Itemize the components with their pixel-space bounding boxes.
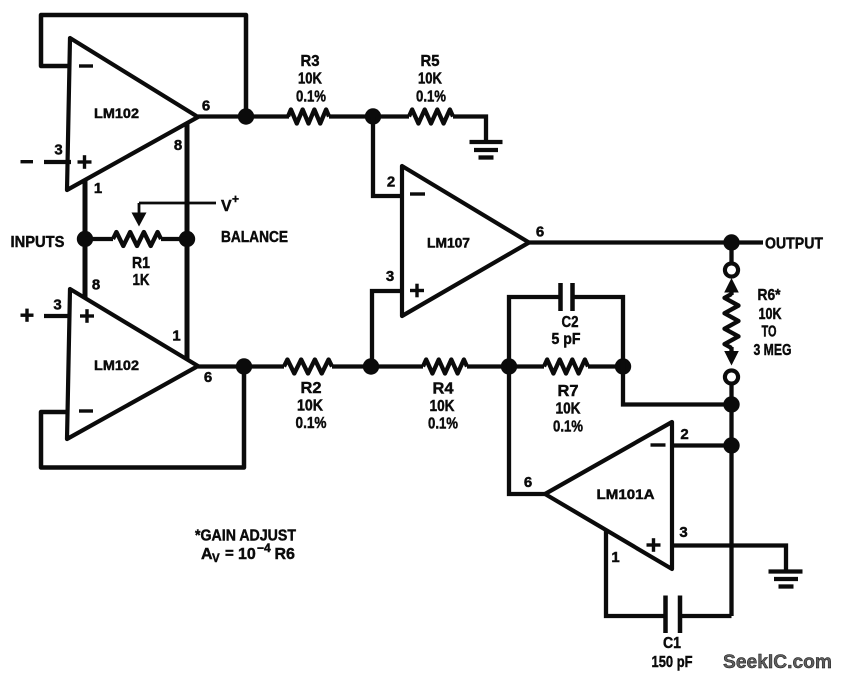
svg-text:1: 1 bbox=[94, 180, 102, 197]
svg-text:6: 6 bbox=[204, 369, 212, 386]
svg-text:R1: R1 bbox=[132, 255, 150, 272]
svg-text:+: + bbox=[232, 192, 239, 206]
svg-text:V: V bbox=[212, 553, 220, 565]
svg-text:SeekIC.com: SeekIC.com bbox=[723, 652, 832, 673]
svg-text:3: 3 bbox=[679, 524, 687, 541]
svg-text:0.1%: 0.1% bbox=[428, 416, 458, 433]
svg-text:3: 3 bbox=[54, 142, 62, 159]
svg-text:1K: 1K bbox=[133, 272, 150, 289]
svg-text:0.1%: 0.1% bbox=[553, 419, 583, 436]
svg-text:10K: 10K bbox=[759, 306, 782, 323]
svg-text:10K: 10K bbox=[418, 71, 442, 88]
svg-text:R2: R2 bbox=[301, 380, 322, 397]
svg-text:150 pF: 150 pF bbox=[652, 654, 693, 671]
svg-text:10K: 10K bbox=[297, 398, 323, 415]
svg-text:LM102: LM102 bbox=[94, 105, 139, 121]
svg-text:2: 2 bbox=[387, 174, 395, 191]
svg-text:10K: 10K bbox=[430, 398, 455, 415]
svg-text:0.1%: 0.1% bbox=[296, 89, 326, 106]
svg-text:3 MEG: 3 MEG bbox=[754, 342, 792, 359]
svg-text:V: V bbox=[221, 198, 232, 215]
svg-text:3: 3 bbox=[386, 268, 394, 285]
svg-text:8: 8 bbox=[174, 137, 182, 154]
svg-text:INPUTS: INPUTS bbox=[11, 234, 65, 251]
svg-text:8: 8 bbox=[92, 277, 100, 294]
svg-text:C1: C1 bbox=[663, 635, 681, 652]
svg-text:6: 6 bbox=[202, 98, 210, 115]
svg-text:R3: R3 bbox=[301, 53, 320, 70]
svg-text:−4: −4 bbox=[257, 541, 271, 555]
svg-text:=: = bbox=[225, 545, 234, 562]
svg-text:2: 2 bbox=[680, 426, 688, 443]
svg-text:R6*: R6* bbox=[758, 287, 782, 304]
svg-text:R5: R5 bbox=[421, 53, 440, 70]
svg-text:*GAIN ADJUST: *GAIN ADJUST bbox=[195, 528, 296, 545]
svg-text:5 pF: 5 pF bbox=[552, 331, 581, 348]
svg-text:10K: 10K bbox=[556, 401, 581, 418]
svg-text:3: 3 bbox=[53, 297, 61, 314]
svg-text:R7: R7 bbox=[558, 383, 579, 400]
svg-text:TO: TO bbox=[762, 324, 777, 341]
svg-text:LM101A: LM101A bbox=[597, 486, 655, 502]
svg-text:LM107: LM107 bbox=[427, 235, 470, 251]
svg-text:6: 6 bbox=[524, 474, 532, 491]
svg-text:10: 10 bbox=[238, 546, 256, 563]
svg-text:10K: 10K bbox=[298, 71, 322, 88]
svg-text:0.1%: 0.1% bbox=[416, 89, 446, 106]
svg-text:1: 1 bbox=[172, 328, 180, 345]
svg-text:6: 6 bbox=[536, 224, 544, 241]
svg-text:C2: C2 bbox=[562, 314, 579, 331]
svg-text:OUTPUT: OUTPUT bbox=[765, 236, 823, 253]
svg-text:R4: R4 bbox=[433, 381, 454, 398]
svg-text:LM102: LM102 bbox=[94, 357, 139, 373]
svg-text:1: 1 bbox=[611, 549, 619, 566]
svg-text:BALANCE: BALANCE bbox=[221, 229, 288, 246]
svg-text:R6: R6 bbox=[275, 546, 296, 563]
svg-text:0.1%: 0.1% bbox=[296, 415, 327, 432]
